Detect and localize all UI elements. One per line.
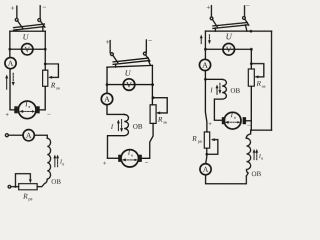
- wire ammeter to coil: [34, 135, 47, 138]
- node dot rheostat tap: [44, 63, 47, 66]
- ammeter A2 (field): [23, 130, 34, 141]
- voltmeter V2: [123, 79, 135, 91]
- switch blade left: [18, 21, 23, 29]
- label I: [111, 124, 114, 129]
- switch pole circle left: [210, 17, 213, 20]
- armature right wire: [40, 86, 46, 110]
- switch blade left: [212, 19, 217, 27]
- rail below ammeter to coil: [107, 105, 124, 115]
- armature current label: [128, 150, 131, 155]
- rheostat R3 wiper wire: [153, 98, 167, 113]
- wiper arrowhead down: [29, 179, 32, 183]
- ammeter A3: [101, 93, 112, 104]
- node dot below box: [205, 153, 208, 156]
- terminal + lead: [210, 6, 212, 17]
- switch blade left: [113, 55, 118, 62]
- label OB: [252, 171, 261, 176]
- current arrow dashed down: [12, 73, 14, 82]
- right rail upper: [44, 31, 46, 70]
- series current arrow dashed up: [256, 151, 258, 159]
- terminal + lead wire: [16, 6, 18, 18]
- ammeter A1: [5, 58, 16, 69]
- wire to shunt coil: [205, 78, 222, 80]
- ammeter A4: [199, 59, 210, 70]
- left rail below ammeter: [10, 69, 14, 110]
- label Iв: [259, 154, 261, 158]
- switch pole circle left: [111, 53, 114, 56]
- field terminal circle: [5, 134, 8, 137]
- rheostat R4 box (field, left): [204, 132, 209, 148]
- series current arrow solid up: [253, 151, 255, 159]
- rheostat R1 box: [43, 70, 48, 86]
- bus connector left: [214, 28, 216, 31]
- current arrow solid up: [6, 77, 8, 89]
- terminal + label: [106, 40, 109, 44]
- left rail below ammeter: [205, 71, 207, 132]
- polarity - at armature: [47, 113, 50, 115]
- armature left wire: [107, 157, 118, 159]
- terminal - label: [43, 6, 46, 8]
- wiper arrowhead: [254, 75, 258, 78]
- left rail upper wire: [9, 31, 11, 57]
- outer loop right vertical: [270, 31, 272, 130]
- node dot rheostat tap: [250, 62, 253, 65]
- shunt winding OB coil top: [214, 79, 226, 120]
- brush right: [243, 117, 247, 124]
- bus connector right: [148, 61, 150, 66]
- frame top wire: [107, 65, 152, 67]
- terminal - lead: [244, 6, 246, 17]
- armature right wire: [246, 120, 251, 122]
- label R ав: [256, 81, 260, 86]
- label R рв: [23, 194, 27, 199]
- polarity +: [103, 161, 106, 164]
- bus double line: [113, 58, 148, 64]
- ammeter A5: [200, 164, 211, 175]
- brush right: [138, 155, 142, 162]
- terminal + lead: [109, 41, 111, 53]
- polarity -: [247, 124, 250, 126]
- label U: [226, 34, 232, 40]
- polarity +: [209, 122, 212, 125]
- brush right: [36, 106, 40, 113]
- terminal - label: [148, 39, 151, 41]
- field current arrow dashed: [57, 157, 59, 167]
- polarity + at armature: [6, 113, 9, 116]
- wiper arrowhead left: [211, 138, 215, 141]
- wiper arrowhead: [48, 76, 52, 79]
- label R рв: [192, 136, 196, 141]
- label Iв: [60, 160, 62, 164]
- rheostat R5 wiper wire: [251, 64, 264, 77]
- label U: [125, 70, 131, 75]
- terminal - lead wire: [39, 6, 41, 19]
- terminal + label: [11, 6, 14, 10]
- armature M1 circle: [18, 101, 36, 119]
- voltmeter wire: [205, 48, 251, 50]
- rheostat R2 box: [19, 184, 38, 190]
- label OB: [52, 179, 61, 184]
- node dot wiper branch: [14, 186, 16, 188]
- brush left: [222, 117, 226, 124]
- shunt current arrow solid up: [216, 87, 218, 95]
- series winding OB coil bottom: [246, 130, 251, 176]
- left rail to V: [106, 67, 108, 93]
- shunt current arrow solid up: [117, 122, 119, 131]
- right rail V to box: [250, 49, 252, 69]
- voltmeter V1: [22, 44, 33, 55]
- armature M3 circle: [224, 112, 241, 129]
- bus connector left: [115, 64, 117, 67]
- wire terminal to box: [11, 186, 19, 188]
- armature arrows inside: [125, 159, 136, 161]
- bottom wire: [206, 175, 247, 184]
- rheostat R1 wiper wire: [45, 64, 58, 77]
- switch blade right: [41, 21, 45, 27]
- brush left: [118, 155, 122, 162]
- line current arrow dashed down: [208, 35, 210, 42]
- field current arrow solid: [54, 157, 56, 167]
- armature current label: [231, 113, 234, 118]
- node dot left of V wire: [8, 48, 11, 51]
- label OB: [133, 124, 142, 129]
- field winding OB coil: [37, 138, 50, 186]
- switch blade right: [146, 55, 150, 61]
- switch pole circle right: [38, 19, 41, 22]
- top horizontal wire: [205, 30, 271, 32]
- label I: [210, 88, 213, 93]
- voltmeter wire: [107, 84, 153, 86]
- armature current label Iя: [25, 102, 28, 107]
- armature arrows inside: [227, 121, 238, 123]
- node dot rheostat tap: [152, 96, 155, 99]
- wiper arrowhead: [156, 111, 160, 114]
- polarity -: [145, 161, 148, 163]
- label OB: [231, 88, 240, 93]
- terminal + label: [207, 6, 210, 10]
- shunt winding OB coil: [107, 114, 128, 158]
- label U: [23, 34, 29, 39]
- node dot right of V wire: [44, 48, 47, 51]
- shunt current arrow dashed down: [121, 119, 123, 128]
- switch blade right: [245, 19, 249, 25]
- rheostat R2 wiper wire: [15, 174, 30, 186]
- rheostat R5 box: [248, 69, 254, 86]
- outer loop bottom link: [251, 129, 271, 131]
- armature M2 circle: [121, 150, 138, 167]
- bus double line: [213, 22, 247, 28]
- switch pole circle right: [243, 17, 246, 20]
- frame top wire: [10, 30, 45, 32]
- field terminal circle 2: [8, 185, 11, 188]
- rail box to ammeter: [206, 148, 207, 164]
- terminal - lead: [145, 40, 147, 52]
- switch pole circle right: [143, 52, 146, 55]
- rheostat R3 box: [150, 105, 156, 124]
- bus double line: [14, 24, 45, 30]
- line current arrow solid up: [200, 37, 202, 44]
- shunt current arrow dashed down: [219, 83, 221, 91]
- bus to frame connectors: [16, 27, 43, 32]
- label R ав: [158, 117, 162, 122]
- rail below box to armature: [142, 123, 153, 158]
- voltmeter wire: [10, 48, 45, 50]
- brush left: [14, 106, 18, 113]
- rheostat R4 wiper wire: [207, 140, 218, 155]
- right rail to box: [151, 65, 153, 104]
- voltmeter V3: [223, 43, 235, 55]
- node dot shunt branch: [204, 78, 207, 81]
- rail below box: [250, 86, 252, 130]
- terminal - label: [246, 4, 249, 6]
- left rail top: [204, 31, 206, 59]
- armature arrows inside: [22, 110, 33, 112]
- node dots V wire: [204, 48, 207, 51]
- node dots V wire: [106, 83, 109, 86]
- switch pole circle left: [15, 18, 18, 21]
- node dot top rail: [250, 30, 253, 33]
- wire terminal to ammeter: [8, 134, 23, 136]
- label R ав: [51, 83, 55, 88]
- bus connector right: [245, 25, 247, 31]
